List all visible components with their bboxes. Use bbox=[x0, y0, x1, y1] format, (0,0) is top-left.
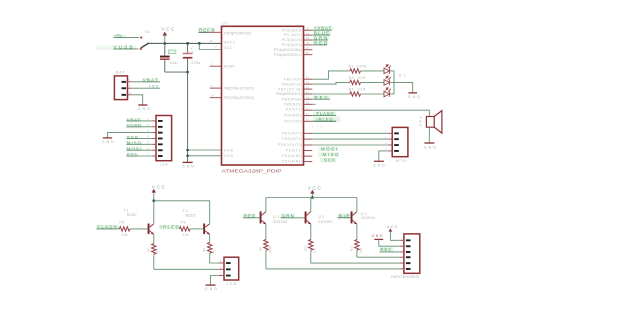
junction dot GND pin 22 bbox=[186, 155, 189, 158]
svg-text:GND: GND bbox=[138, 107, 150, 111]
connector RECEIVER bbox=[391, 234, 420, 279]
wire Q3 to RECEIVER pin4 bbox=[357, 256, 400, 258]
svg-text:GND: GND bbox=[224, 148, 234, 152]
wire T2 emitter to LED pin1 bbox=[210, 259, 219, 264]
svg-text:BAT: BAT bbox=[116, 71, 126, 75]
svg-text:PB5(SCK): PB5(SCK) bbox=[284, 103, 302, 107]
svg-text:S1: S1 bbox=[145, 30, 150, 34]
resistor R11 bbox=[350, 240, 363, 258]
wire MOSI to ISP bbox=[127, 149, 152, 151]
switch S1 bbox=[140, 30, 150, 50]
svg-text:10: 10 bbox=[211, 94, 215, 98]
svg-text:2N3904: 2N3904 bbox=[318, 220, 332, 224]
svg-text:PD0(RXD): PD0(RXD) bbox=[284, 114, 302, 118]
node GRN bbox=[312, 36, 329, 41]
pin XTAL2 10 bbox=[210, 97, 222, 99]
capacitor C2 bbox=[183, 43, 201, 72]
wire Q1 to RECEIVER pin6 bbox=[266, 268, 400, 270]
node +5V bbox=[113, 33, 139, 38]
svg-text:2N3904: 2N3904 bbox=[273, 220, 287, 224]
svg-text:ATMEGA328P_PDIP: ATMEGA328P_PDIP bbox=[222, 169, 282, 174]
node SCK (U1) bbox=[320, 158, 336, 163]
wire VCC rail bottom-left bbox=[154, 201, 210, 224]
ground symbol at receiver bbox=[372, 234, 400, 246]
svg-text:VCC: VCC bbox=[308, 185, 322, 190]
junction dot VCC rail / VCC symbol bbox=[163, 42, 166, 45]
svg-text:PB0(ICP): PB0(ICP) bbox=[284, 77, 302, 81]
svg-text:VCC: VCC bbox=[161, 26, 175, 31]
svg-text:120: 120 bbox=[359, 248, 363, 253]
svg-text:21: 21 bbox=[212, 28, 216, 32]
svg-text:VUSB: VUSB bbox=[127, 123, 141, 128]
svg-text:R4: R4 bbox=[349, 87, 354, 91]
wire VUSB to ISP bbox=[127, 126, 152, 128]
svg-text:PD4(XCK/T0): PD4(XCK/T0) bbox=[278, 143, 302, 147]
wire PB3 to R4 bbox=[312, 93, 350, 95]
capacitor C3 bbox=[160, 43, 178, 72]
svg-text:PC6(ADC6): PC6(ADC6) bbox=[282, 28, 302, 32]
svg-text:T1: T1 bbox=[124, 209, 129, 213]
wire GND pin 22 bbox=[188, 155, 222, 157]
svg-text:PB3(MOSI/OC2): PB3(MOSI/OC2) bbox=[276, 92, 302, 96]
wire U1 to MTR pin1 bbox=[312, 132, 388, 134]
connector BAT bbox=[114, 71, 131, 100]
svg-text:R7: R7 bbox=[146, 248, 150, 252]
transistor T1 BC337 bbox=[124, 209, 154, 244]
wire VUSB to switch bbox=[114, 48, 139, 50]
node +5V (BAT pin2) bbox=[132, 84, 160, 88]
node +VBAT bbox=[312, 26, 333, 31]
pin XTAL1 9 bbox=[210, 87, 222, 89]
svg-text:RES: RES bbox=[127, 152, 137, 157]
wire VCC rail bottom-right bbox=[266, 197, 357, 199]
node RES (ISP pin7) bbox=[126, 152, 152, 157]
svg-text:+: + bbox=[191, 47, 193, 51]
resistor R9 bbox=[259, 240, 272, 269]
node IRLED (U1) bbox=[312, 117, 340, 122]
node IRLED (T2) bbox=[159, 224, 181, 229]
U1 right pin stubs group B bbox=[304, 79, 313, 121]
svg-text:BC337: BC337 bbox=[186, 213, 196, 217]
svg-text:PC5(ADC5): PC5(ADC5) bbox=[282, 38, 302, 42]
ground symbol at MTR bbox=[373, 161, 385, 167]
svg-text:GND: GND bbox=[102, 140, 114, 144]
junction dot VCC bottom-left bbox=[152, 199, 155, 202]
svg-text:10k: 10k bbox=[183, 233, 189, 237]
svg-text:PB6(XTAL1/TOSC1): PB6(XTAL1/TOSC1) bbox=[224, 87, 254, 91]
ground symbol below BAT bbox=[138, 105, 150, 111]
resistor R4 bbox=[349, 87, 385, 96]
svg-text:PC4(ADC4/SDA): PC4(ADC4/SDA) bbox=[274, 48, 302, 52]
wire Q3 collector drop bbox=[356, 198, 358, 212]
power symbol VCC (bottom-left section) bbox=[152, 185, 166, 201]
U1 right pin names bbox=[274, 28, 302, 163]
wire T1 emitter to LED pin2 bbox=[154, 268, 219, 270]
resistor R1 bbox=[349, 64, 385, 73]
transistor Q2 2N3904 bbox=[305, 211, 333, 239]
svg-text:PD5(T1): PD5(T1) bbox=[286, 149, 302, 153]
svg-text:RESET: RESET bbox=[224, 65, 235, 69]
svg-text:220u: 220u bbox=[191, 61, 200, 65]
svg-text:T2: T2 bbox=[183, 209, 188, 213]
svg-text:GND: GND bbox=[182, 165, 194, 169]
svg-text:C2: C2 bbox=[189, 51, 194, 55]
svg-text:SCK: SCK bbox=[127, 135, 138, 140]
junction dot caps join bbox=[186, 71, 189, 74]
junction dot VCC bottom-right bbox=[311, 196, 314, 199]
svg-text:91R: 91R bbox=[358, 87, 366, 91]
svg-text:91R: 91R bbox=[358, 76, 366, 80]
svg-text:BC337: BC337 bbox=[127, 213, 137, 217]
wire +5V to switch bbox=[114, 37, 140, 39]
resistor R6 bbox=[179, 220, 203, 237]
svg-text:R6: R6 bbox=[181, 220, 186, 224]
wire GND pin 8 bbox=[188, 149, 222, 151]
svg-text:GND: GND bbox=[424, 145, 436, 149]
svg-text:ISP: ISP bbox=[160, 163, 168, 167]
svg-text:PD5(T1): PD5(T1) bbox=[286, 108, 302, 112]
transistor T2 BC337 bbox=[183, 209, 210, 243]
node RED bbox=[312, 40, 328, 45]
node BLUE (Q3 base) bbox=[338, 213, 352, 218]
resistor R5 bbox=[119, 220, 147, 237]
junction dot VCC rail / VCC pin drop bbox=[198, 42, 201, 45]
svg-text:2N3904: 2N3904 bbox=[361, 216, 375, 220]
power symbol VCC (receiver) bbox=[387, 224, 400, 241]
svg-text:R2: R2 bbox=[349, 76, 354, 80]
node MOSI (U1) bbox=[319, 146, 339, 151]
svg-text:10k: 10k bbox=[313, 248, 317, 253]
wire VBAT bbox=[132, 81, 160, 83]
node FLASH (T1) bbox=[96, 224, 120, 229]
svg-text:VCC: VCC bbox=[224, 46, 233, 50]
svg-text:MOSI: MOSI bbox=[127, 147, 141, 152]
junction dot GND pin 8 bbox=[186, 149, 189, 152]
node MISO (ISP pin5) bbox=[126, 141, 152, 146]
wire REFS to AREF pin bbox=[199, 31, 211, 33]
op-amp U1 microcontroller ATMEGA328P_PDIP bbox=[222, 21, 304, 174]
svg-text:R5: R5 bbox=[119, 220, 124, 224]
node VUSB (ISP pin2) bbox=[126, 123, 152, 128]
svg-text:PC4(ADC4): PC4(ADC4) bbox=[282, 43, 302, 47]
wire BAT pin3 to ground bbox=[132, 95, 143, 105]
svg-text:R8: R8 bbox=[202, 248, 206, 252]
node VBAT (BAT pin1) bbox=[132, 78, 160, 83]
U1 left pin names bbox=[224, 31, 254, 158]
connector MTR bbox=[385, 127, 408, 162]
wire Q2 collector drop bbox=[310, 198, 312, 212]
svg-text:PD2(INT0): PD2(INT0) bbox=[282, 131, 302, 135]
svg-text:20: 20 bbox=[210, 39, 214, 43]
LED D1 blue element bbox=[384, 65, 391, 74]
svg-text:PD7(AIN1): PD7(AIN1) bbox=[282, 160, 302, 164]
connector LED bbox=[219, 257, 239, 286]
pin AREF 21 bbox=[210, 31, 222, 33]
svg-text:SP1: SP1 bbox=[419, 117, 423, 127]
svg-text:C3: C3 bbox=[170, 50, 175, 54]
svg-text:LED: LED bbox=[227, 282, 237, 286]
wire VCC rail bbox=[149, 42, 222, 44]
svg-text:PB7(XTAL2/TOSC2): PB7(XTAL2/TOSC2) bbox=[224, 96, 254, 100]
ground symbol below caps bbox=[182, 162, 194, 168]
node REC bbox=[312, 95, 330, 100]
wire VBAT to ISP bbox=[127, 120, 152, 122]
svg-text:VBAT: VBAT bbox=[127, 117, 140, 122]
wire PB0 to R1 bbox=[312, 71, 350, 79]
wire RES to ISP bbox=[127, 155, 152, 157]
node VBAT (ISP pin1) bbox=[126, 117, 152, 122]
ground symbol at LED connector bbox=[205, 285, 217, 291]
name label C3 bbox=[168, 50, 175, 54]
wire PB1 to R2 bbox=[312, 82, 350, 84]
pin RESET 1 bbox=[210, 65, 222, 67]
wire GND vertical bbox=[187, 72, 189, 162]
wire MISO to ISP bbox=[127, 143, 152, 145]
svg-text:R10: R10 bbox=[303, 245, 307, 251]
node MISO (U1) bbox=[319, 152, 340, 157]
svg-text:140R: 140R bbox=[357, 64, 367, 68]
node REC (receiver pin3) bbox=[380, 247, 400, 252]
svg-text:IRLED: IRLED bbox=[161, 224, 179, 229]
stub PB5 bbox=[312, 103, 315, 105]
svg-text:R11: R11 bbox=[350, 245, 354, 251]
svg-text:VCC: VCC bbox=[387, 224, 398, 229]
transistor Q1 2N3904 bbox=[260, 211, 288, 239]
svg-text:PB4(MISO): PB4(MISO) bbox=[282, 97, 302, 101]
node VUSB bbox=[96, 45, 139, 50]
svg-text:PC5(ADC5/SCL): PC5(ADC5/SCL) bbox=[274, 53, 302, 57]
svg-text:VCC: VCC bbox=[152, 185, 166, 190]
resistor R7 bbox=[146, 244, 159, 270]
node SCK (ISP pin4) bbox=[126, 135, 152, 140]
node FLASH (U1) bbox=[312, 111, 336, 116]
svg-text:PD3(INT1): PD3(INT1) bbox=[282, 137, 302, 141]
svg-text:PD6(AIN0): PD6(AIN0) bbox=[282, 154, 302, 158]
U1 right pin stubs group A bbox=[304, 30, 313, 55]
svg-text:MISO: MISO bbox=[127, 141, 142, 146]
svg-text:GND: GND bbox=[224, 154, 234, 158]
wire MTR pin4 to ground bbox=[379, 151, 389, 161]
connector ISP bbox=[147, 116, 172, 167]
node MOSI (ISP pin6) bbox=[126, 147, 152, 152]
svg-text:100n: 100n bbox=[170, 61, 178, 65]
wire Q2 to RECEIVER pin5 bbox=[311, 262, 400, 264]
svg-text:R1: R1 bbox=[349, 64, 354, 68]
speaker SP1 bbox=[419, 111, 442, 143]
pin numbers group A bbox=[306, 26, 309, 55]
svg-text:GND: GND bbox=[408, 95, 420, 99]
LED D1 green element bbox=[384, 76, 391, 85]
svg-text:PB1(OC1A): PB1(OC1A) bbox=[282, 82, 302, 86]
wire U1 to MTR pin3 bbox=[312, 144, 388, 146]
wire +5V bbox=[132, 87, 160, 89]
wire ISP pin3 to ground bbox=[108, 133, 152, 138]
svg-text:GND: GND bbox=[372, 234, 383, 238]
resistor R8 bbox=[202, 243, 215, 259]
svg-text:U1: U1 bbox=[222, 21, 229, 26]
svg-text:GND: GND bbox=[205, 287, 217, 291]
wire LED pin3 to ground bbox=[210, 276, 218, 285]
wire Q1 collector drop bbox=[265, 198, 267, 212]
resistor R10 bbox=[303, 240, 316, 264]
power symbol VCC (top) bbox=[161, 26, 175, 43]
ground symbol at LED bbox=[408, 93, 420, 99]
wire T1 collector drop bbox=[153, 201, 155, 224]
svg-text:SCK: SCK bbox=[324, 158, 335, 163]
wire SCK to ISP bbox=[127, 137, 152, 139]
svg-text:AVCC: AVCC bbox=[224, 41, 236, 45]
svg-text:MISO: MISO bbox=[323, 152, 340, 157]
svg-text:MTR: MTR bbox=[396, 159, 406, 163]
wire cap commons join bbox=[165, 71, 188, 73]
node BLUE bbox=[312, 31, 331, 36]
svg-text:R9: R9 bbox=[259, 247, 263, 251]
svg-text:2 3 4 5: 2 3 4 5 bbox=[308, 125, 322, 129]
ground symbol at speaker bbox=[424, 143, 436, 149]
U1 right pin stubs group D bbox=[304, 133, 313, 161]
svg-text:RECEIVER: RECEIVER bbox=[391, 275, 419, 279]
wire LED cathodes common bbox=[390, 71, 413, 94]
ground symbol at ISP bbox=[102, 138, 114, 144]
wire speaker net bbox=[312, 110, 429, 116]
svg-text:10k: 10k bbox=[122, 233, 128, 237]
svg-text:PB2(OC1B): PB2(OC1B) bbox=[278, 87, 302, 91]
LED D1 red element bbox=[384, 88, 391, 97]
svg-text:PD1(TXD): PD1(TXD) bbox=[284, 119, 302, 123]
pin VCC 7 drop wire bbox=[199, 43, 221, 49]
svg-text:PC (ADC): PC (ADC) bbox=[284, 33, 302, 37]
power symbol VCC (bottom-right section) bbox=[308, 185, 322, 197]
resistor R2 bbox=[349, 76, 385, 85]
wire U1 to MTR pin2 bbox=[312, 138, 388, 140]
svg-text:REC: REC bbox=[380, 247, 391, 252]
node GRN (Q2 base) bbox=[281, 213, 305, 218]
transistor Q3 2N3904 bbox=[351, 211, 375, 239]
svg-text:PD0(PCINT16): PD0(PCINT16) bbox=[224, 31, 251, 35]
svg-text:GND: GND bbox=[373, 163, 385, 167]
node REFS bbox=[198, 28, 215, 33]
junction dot VCC rail / C2 bbox=[186, 42, 189, 45]
node RED (Q1 base) bbox=[243, 213, 260, 218]
